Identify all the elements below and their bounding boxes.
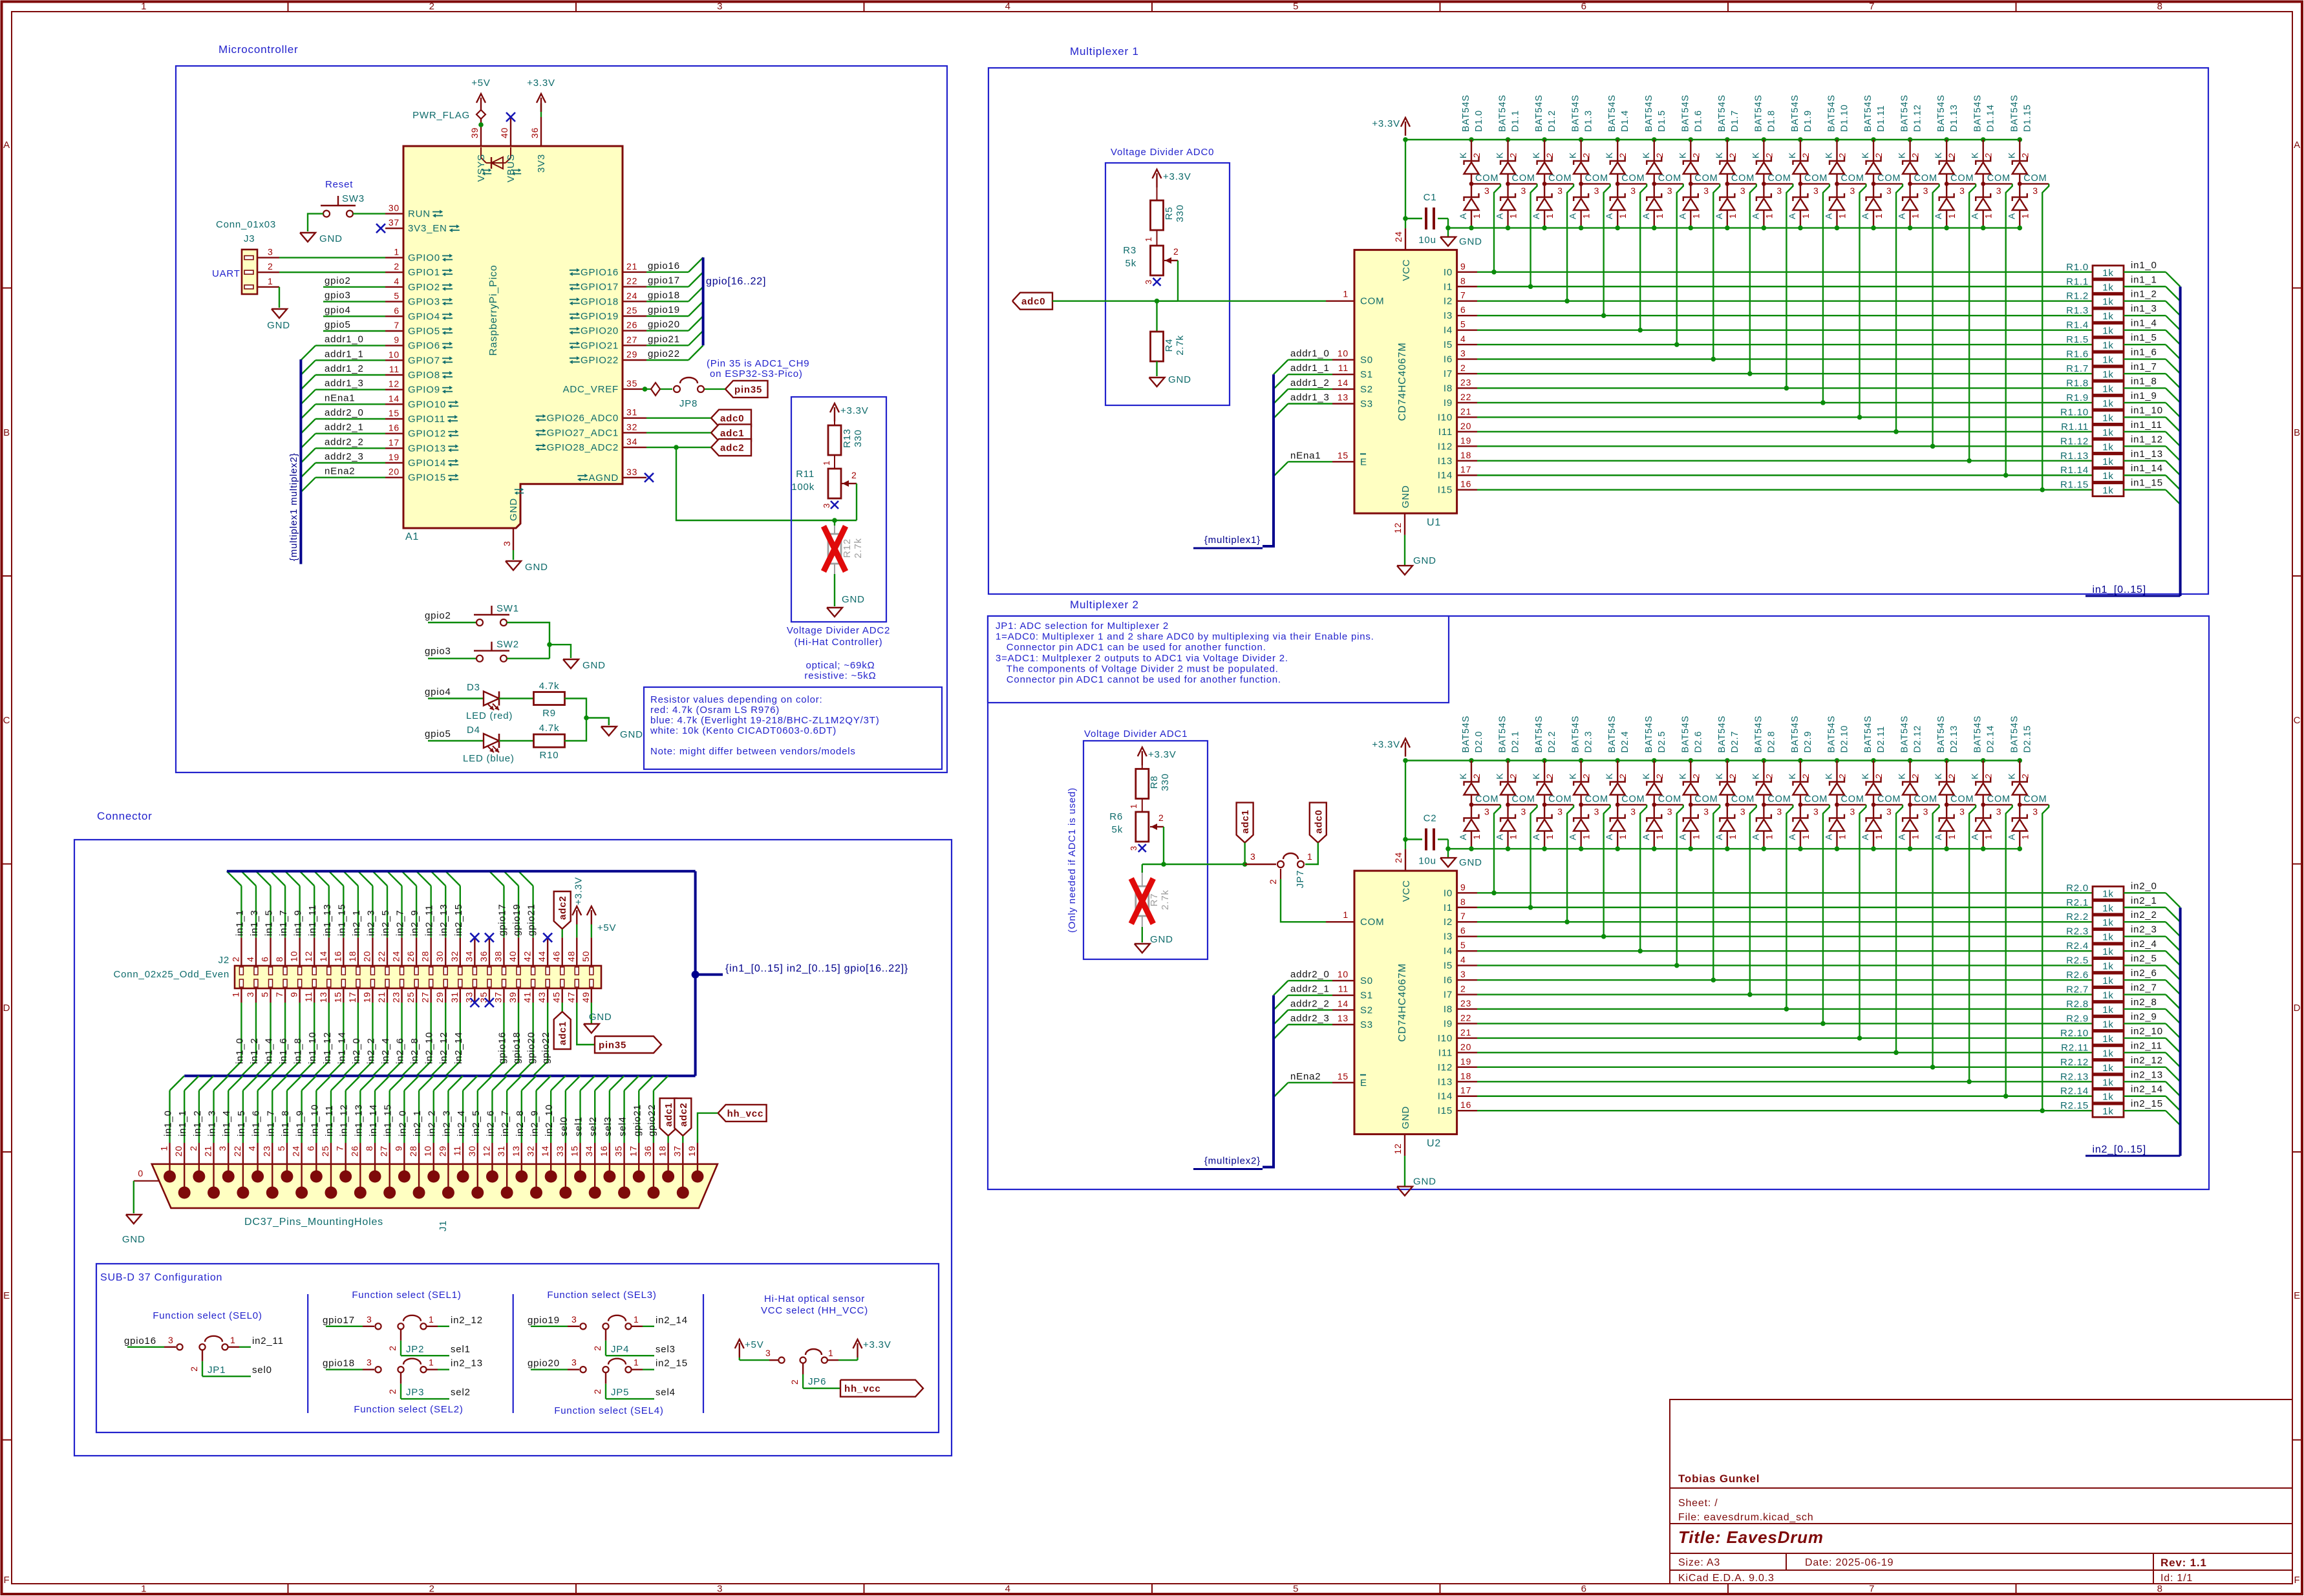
svg-text:C: C	[3, 715, 11, 726]
jumper JP7	[1245, 864, 1276, 865]
J1 pin 18	[662, 1171, 674, 1183]
svg-text:BAT54S: BAT54S	[1534, 716, 1544, 753]
svg-text:R1.8: R1.8	[2066, 378, 2089, 388]
junction I15 mux1	[2040, 487, 2045, 493]
svg-text:20: 20	[173, 1145, 184, 1156]
svg-text:Title: EavesDrum: Title: EavesDrum	[1678, 1527, 1824, 1547]
svg-text:addr2_3: addr2_3	[1290, 1013, 1330, 1024]
wire nEna2	[1288, 1082, 1333, 1083]
svg-text:8: 8	[1460, 275, 1466, 286]
svg-text:S1: S1	[1360, 990, 1373, 1001]
svg-text:in1_2: in1_2	[2131, 289, 2157, 300]
resistor R1.13 1k	[2093, 454, 2124, 467]
svg-text:pin35: pin35	[734, 384, 762, 395]
svg-text:CD74HC4067M: CD74HC4067M	[1397, 963, 1408, 1042]
svg-text:in2_3: in2_3	[441, 1110, 452, 1136]
svg-text:2: 2	[1460, 363, 1466, 373]
svg-text:D1.6: D1.6	[1693, 110, 1703, 132]
wire and label sel0 J1	[565, 1091, 566, 1143]
svg-text:15: 15	[1338, 1071, 1349, 1081]
svg-text:19: 19	[1460, 1056, 1471, 1067]
resistor R1.3 1k	[2093, 309, 2124, 322]
svg-text:addr2_1: addr2_1	[325, 422, 364, 433]
svg-text:1: 1	[1910, 834, 1921, 840]
svg-text:S1: S1	[1360, 369, 1373, 380]
svg-text:A: A	[1970, 213, 1980, 219]
junction I5 mux1	[1674, 342, 1680, 347]
bus entry in2_4	[2166, 951, 2181, 966]
svg-text:in1_15: in1_15	[2131, 478, 2163, 489]
wire and label in2_9 J2 top	[416, 886, 417, 937]
svg-text:gpio20: gpio20	[528, 1358, 560, 1369]
svg-text:R2.7: R2.7	[2066, 984, 2089, 995]
junction I4 mux2	[1637, 948, 1643, 953]
svg-text:38: 38	[493, 951, 503, 962]
svg-text:Date: 2025-06-19: Date: 2025-06-19	[1805, 1557, 1893, 1568]
U2 pin 4 I5	[1457, 964, 1477, 966]
svg-text:3: 3	[1630, 807, 1636, 817]
svg-text:R12: R12	[842, 538, 853, 558]
wire D2.11 COM to I11	[1896, 805, 1903, 1052]
svg-text:sel0: sel0	[252, 1365, 272, 1376]
svg-text:15: 15	[389, 408, 400, 418]
svg-text:JP8: JP8	[679, 398, 698, 409]
bus right vertical	[694, 871, 697, 1076]
svg-text:1: 1	[1691, 213, 1701, 219]
junction I11 mux2	[1893, 1050, 1899, 1056]
resistor R2.13 1k	[2093, 1075, 2124, 1088]
svg-text:BAT54S: BAT54S	[1827, 716, 1837, 753]
wire pico gnd	[513, 550, 514, 560]
wire and label sel1 J1	[579, 1091, 581, 1143]
svg-text:K: K	[1458, 152, 1468, 158]
svg-text:D1.8: D1.8	[1766, 110, 1776, 132]
wire gnd bottom rail mux2	[1448, 848, 2020, 849]
wire and label in2_5 J1	[477, 1091, 478, 1143]
wire and label in1_4 J1	[228, 1091, 229, 1143]
svg-text:A: A	[1568, 213, 1578, 219]
svg-text:COM: COM	[1694, 794, 1718, 805]
wire and label gpio17 J2 top	[503, 886, 504, 937]
svg-text:5: 5	[1460, 940, 1466, 950]
svg-text:in1_6: in1_6	[2131, 347, 2157, 358]
svg-text:D1.3: D1.3	[1584, 110, 1594, 132]
wire J2 gnd	[591, 1003, 592, 1024]
svg-text:36: 36	[529, 127, 540, 138]
svg-text:2: 2	[1581, 153, 1592, 158]
svg-text:D1.5: D1.5	[1657, 110, 1667, 132]
svg-text:in1_5: in1_5	[2131, 332, 2157, 343]
J2 pin 42	[532, 937, 533, 966]
svg-text:2: 2	[1471, 773, 1482, 779]
U1 pin 23 I8	[1457, 387, 1477, 388]
svg-text:COM: COM	[1767, 794, 1791, 805]
wire addr1_1	[1288, 374, 1333, 375]
svg-text:in2_12: in2_12	[451, 1315, 483, 1326]
no-connect J2 pin 33	[470, 998, 479, 1007]
svg-text:K: K	[1604, 152, 1614, 158]
wire D1.12 COM to I12	[1933, 184, 1939, 446]
wire J1 adc2	[682, 1136, 683, 1143]
pico internal VSYS-VBUS diode	[481, 147, 486, 163]
svg-text:R2.1: R2.1	[2066, 897, 2089, 908]
multiplexer IC U1 CD74HC4067M body	[1354, 250, 1457, 513]
wire D1.13 COM to I13	[1969, 184, 1976, 460]
pico pin 31 GPIO26_ADC0	[623, 418, 646, 419]
wire D1.5 COM to I5	[1677, 184, 1683, 345]
svg-text:1k: 1k	[2102, 888, 2113, 899]
U1 pin 4 I5	[1457, 344, 1477, 345]
svg-text:R1.0: R1.0	[2066, 262, 2089, 273]
label in2_1	[2124, 907, 2166, 908]
svg-text:K: K	[1970, 772, 1980, 779]
svg-text:GPIO21: GPIO21	[581, 340, 619, 351]
wire and label addr1_2	[315, 374, 385, 376]
svg-text:blue: 4.7k (Everlight 19-218/B: blue: 4.7k (Everlight 19-218/BHC-ZL1M2QY…	[650, 715, 880, 726]
svg-text:I5: I5	[1444, 339, 1453, 350]
svg-text:3: 3	[1667, 186, 1673, 196]
svg-text:Sheet: /: Sheet: /	[1678, 1498, 1718, 1509]
svg-text:gpio20: gpio20	[526, 1032, 537, 1064]
svg-text:AGND: AGND	[588, 473, 619, 484]
svg-text:15: 15	[570, 1145, 580, 1156]
power +3.3V mux2	[1405, 743, 1406, 757]
svg-text:1k: 1k	[2102, 369, 2113, 380]
svg-text:in2_13: in2_13	[2131, 1069, 2163, 1080]
power +3.3V divider ADC1	[1142, 751, 1143, 765]
wire SW1 out	[507, 622, 549, 659]
svg-text:K: K	[1750, 152, 1760, 158]
wire I10 row mux2	[1477, 1037, 2093, 1039]
svg-text:1: 1	[634, 1314, 639, 1325]
svg-text:sel3: sel3	[656, 1344, 676, 1355]
wire D2.6 COM to I6	[1713, 805, 1720, 980]
wire I14 row mux2	[1477, 1096, 2093, 1097]
svg-text:3: 3	[1557, 807, 1563, 817]
svg-text:GPIO11: GPIO11	[408, 414, 445, 425]
wire I11 row mux2	[1477, 1052, 2093, 1053]
wire D2.0 COM to I0	[1494, 805, 1500, 893]
wire I13 row mux1	[1477, 460, 2093, 462]
svg-text:8: 8	[2157, 1584, 2163, 1595]
svg-text:18: 18	[1460, 450, 1471, 460]
svg-text:22: 22	[1460, 392, 1471, 402]
J2 pin 21	[387, 988, 388, 1003]
svg-text:GPIO16: GPIO16	[581, 267, 619, 278]
svg-text:K: K	[1531, 152, 1541, 158]
svg-text:10: 10	[1338, 969, 1349, 979]
resistor R1.12 1k	[2093, 440, 2124, 452]
global label adc1 J1	[660, 1098, 677, 1136]
svg-text:3: 3	[1144, 279, 1153, 284]
svg-text:SW1: SW1	[496, 603, 519, 614]
svg-text:R1.2: R1.2	[2066, 291, 2089, 302]
svg-text:3: 3	[1740, 807, 1746, 817]
power +3.3V at 3V3 pin	[540, 103, 542, 117]
svg-text:1: 1	[1544, 213, 1555, 219]
svg-text:addr1_1: addr1_1	[325, 348, 364, 359]
svg-text:17: 17	[628, 1145, 638, 1156]
svg-text:10u: 10u	[1418, 856, 1436, 867]
ground below pico	[506, 561, 521, 570]
wire and label in1_1 J2 top	[240, 886, 242, 937]
svg-text:in1_10: in1_10	[2131, 405, 2163, 416]
svg-text:adc1: adc1	[663, 1103, 674, 1127]
svg-text:S0: S0	[1360, 355, 1373, 366]
wire addr1_3	[1288, 403, 1333, 404]
svg-text:3: 3	[1740, 186, 1746, 196]
svg-text:gpio3: gpio3	[325, 290, 351, 301]
svg-text:in2_5: in2_5	[2131, 953, 2157, 964]
svg-text:A: A	[1970, 833, 1980, 840]
svg-text:Hi-Hat optical sensor: Hi-Hat optical sensor	[764, 1293, 865, 1304]
svg-text:in2_7: in2_7	[395, 910, 406, 936]
U2 pin 24 VCC	[1405, 849, 1406, 871]
svg-text:I15: I15	[1438, 1105, 1453, 1116]
svg-text:2: 2	[1654, 153, 1665, 158]
svg-text:3: 3	[1923, 807, 1929, 817]
svg-text:RUN: RUN	[408, 209, 431, 220]
note box SUB-D 37 Configuration	[96, 1264, 939, 1432]
svg-text:24: 24	[391, 951, 401, 962]
wire and label in1_14 J1	[374, 1091, 376, 1143]
svg-text:in1_4: in1_4	[2131, 318, 2157, 329]
resistor R2.4 1k	[2093, 944, 2124, 957]
svg-text:in2_4: in2_4	[2131, 939, 2157, 950]
bus entry in2_2	[2166, 922, 2181, 937]
svg-text:11: 11	[1338, 984, 1349, 994]
svg-text:D2.10: D2.10	[1840, 725, 1850, 753]
svg-text:I10: I10	[1438, 1033, 1453, 1044]
svg-text:21: 21	[626, 261, 637, 271]
wire I15 row mux1	[1477, 489, 2093, 491]
U2 pin 20 I11	[1457, 1052, 1477, 1053]
section box Multiplexer 2	[988, 616, 2209, 1189]
svg-text:1: 1	[230, 1335, 236, 1345]
svg-text:I6: I6	[1444, 354, 1453, 365]
svg-text:3: 3	[1886, 186, 1892, 196]
svg-text:addr1_2: addr1_2	[325, 363, 364, 374]
bus entry in2_9	[2166, 1023, 2181, 1038]
J2 pin 38	[503, 937, 504, 966]
svg-text:4.7k: 4.7k	[539, 681, 560, 692]
svg-text:1k: 1k	[2102, 1048, 2113, 1059]
svg-text:9: 9	[289, 992, 299, 997]
wire D2.2 COM to I2	[1567, 805, 1573, 922]
junction I13 mux2	[1967, 1079, 1972, 1084]
svg-text:S2: S2	[1360, 1005, 1373, 1016]
J2 pin 17	[357, 988, 359, 1003]
bus entry in1_5	[2166, 345, 2181, 359]
svg-text:in2_14: in2_14	[656, 1315, 688, 1326]
svg-text:14: 14	[389, 393, 400, 403]
wire divider adc1 node	[1142, 864, 1245, 865]
label in1_7	[2124, 373, 2166, 374]
svg-text:C2: C2	[1424, 813, 1437, 824]
note box resistor values	[644, 687, 942, 769]
svg-text:D2.15: D2.15	[2022, 725, 2032, 753]
svg-text:1: 1	[429, 1314, 434, 1325]
svg-text:A: A	[1677, 833, 1687, 840]
bus entry in2_8	[2166, 1009, 2181, 1024]
svg-text:in2_11: in2_11	[2131, 1040, 2162, 1051]
svg-text:D2.2: D2.2	[1547, 731, 1557, 753]
svg-text:GND: GND	[1400, 485, 1411, 508]
svg-text:BAT54S: BAT54S	[1680, 716, 1691, 753]
label in1_13	[2124, 460, 2166, 462]
wire and label gpio22 J1	[653, 1091, 654, 1143]
ground at cap mux2	[1440, 858, 1456, 867]
svg-text:E: E	[3, 1290, 10, 1301]
svg-text:29: 29	[434, 992, 445, 1003]
wire D2.8 COM to I8	[1786, 805, 1793, 1009]
svg-text:A: A	[1458, 213, 1468, 219]
U1 pin 9 I0	[1457, 271, 1477, 273]
wire addr2_3	[1288, 1024, 1333, 1025]
svg-text:gpio20: gpio20	[648, 319, 680, 330]
svg-text:gpio4: gpio4	[425, 686, 451, 697]
svg-text:BAT54S: BAT54S	[1571, 94, 1581, 132]
svg-text:R7: R7	[1149, 893, 1160, 907]
svg-text:JP1: ADC selection for Multipl: JP1: ADC selection for Multiplexer 2	[996, 621, 1169, 632]
capacitor C2 10u	[1405, 838, 1422, 840]
wire J3 pin1 to gnd	[279, 287, 280, 308]
svg-text:in1_15: in1_15	[383, 1104, 394, 1136]
svg-text:COM: COM	[1360, 917, 1384, 928]
wire and label in2_11 J2 top	[430, 886, 431, 937]
svg-text:R2.4: R2.4	[2066, 941, 2089, 952]
U2 pin 5 I4	[1457, 950, 1477, 952]
wire D2.15 COM to I15	[2042, 805, 2049, 1111]
svg-text:on ESP32-S3-Pico): on ESP32-S3-Pico)	[710, 368, 803, 379]
svg-text:F: F	[4, 1575, 10, 1586]
wire and label in1_12 J1	[345, 1091, 346, 1143]
svg-text:D1.14: D1.14	[1986, 104, 1996, 132]
svg-text:D1.13: D1.13	[1949, 104, 1959, 132]
wire and label in1_10 J1	[315, 1091, 317, 1143]
svg-text:hh_vcc: hh_vcc	[844, 1383, 881, 1394]
wire and label in2_3 J1	[447, 1091, 449, 1143]
junction I9 mux2	[1820, 1021, 1826, 1027]
global label adc1	[711, 424, 751, 441]
wire and label gpio16	[646, 271, 688, 273]
bus entry in1_7	[2166, 374, 2181, 388]
svg-text:1k: 1k	[2102, 946, 2113, 957]
wire and label gpio3	[323, 301, 385, 302]
svg-text:3: 3	[245, 992, 255, 997]
pico pin 17 GPIO13	[385, 447, 403, 449]
label in1_14	[2124, 474, 2166, 476]
svg-text:A: A	[1531, 833, 1541, 840]
svg-text:1: 1	[159, 1145, 169, 1151]
ground below U1	[1397, 566, 1413, 575]
J2 pin 45	[562, 988, 563, 1003]
svg-text:D2.14: D2.14	[1986, 725, 1996, 753]
wire D2.5 COM to I5	[1677, 805, 1683, 966]
svg-text:in1_13: in1_13	[322, 904, 333, 936]
svg-text:2: 2	[189, 1366, 199, 1372]
svg-text:1: 1	[1343, 289, 1349, 299]
svg-text:COM: COM	[1548, 794, 1572, 805]
svg-text:3: 3	[1630, 186, 1636, 196]
svg-text:BAT54S: BAT54S	[1461, 716, 1471, 753]
svg-text:GPIO28_ADC2: GPIO28_ADC2	[547, 442, 619, 453]
J2 pin 8	[284, 937, 286, 966]
wire and label gpio21	[646, 345, 688, 346]
svg-text:K: K	[1787, 152, 1797, 158]
svg-text:GPIO10: GPIO10	[408, 399, 446, 410]
wire and label gpio22 J2 bottom	[547, 1003, 548, 1061]
svg-text:23: 23	[1460, 377, 1471, 387]
svg-text:E: E	[1360, 456, 1367, 467]
svg-text:addr2_3: addr2_3	[325, 451, 364, 462]
svg-text:in1_3: in1_3	[2131, 303, 2157, 314]
svg-text:3: 3	[1996, 186, 2002, 196]
svg-text:1: 1	[1581, 213, 1592, 219]
svg-text:2: 2	[1581, 773, 1592, 779]
svg-text:D1.4: D1.4	[1620, 110, 1630, 132]
svg-text:in1_2: in1_2	[249, 1037, 260, 1064]
svg-text:BAT54S: BAT54S	[1790, 716, 1800, 753]
svg-text:15: 15	[332, 992, 343, 1003]
wire adc0 to JP7	[1305, 843, 1318, 864]
wire J2 adc1	[562, 1003, 563, 1012]
svg-text:23: 23	[391, 992, 401, 1003]
potentiometer R11 100k	[828, 469, 841, 498]
svg-text:in2_10: in2_10	[424, 1032, 435, 1064]
wire I9 row mux2	[1477, 1023, 2093, 1024]
junction R11 wiper adc2	[832, 518, 837, 523]
svg-text:I6: I6	[1444, 975, 1453, 986]
junction I14 mux2	[2003, 1094, 2009, 1099]
wire and label in1_15 J2 top	[343, 886, 344, 937]
svg-text:11: 11	[452, 1145, 462, 1156]
junction I3 mux1	[1601, 313, 1606, 318]
bus entry in2_11	[2166, 1052, 2181, 1067]
svg-text:R11: R11	[796, 469, 815, 480]
svg-text:pin35: pin35	[599, 1040, 626, 1051]
pico pin 4 GPIO2	[385, 286, 403, 288]
svg-text:R1.4: R1.4	[2066, 320, 2089, 331]
resistor R2.2 1k	[2093, 915, 2124, 928]
svg-text:K: K	[1641, 772, 1651, 779]
svg-text:I7: I7	[1444, 368, 1453, 379]
wire J1 pin0 gnd	[133, 1181, 134, 1213]
svg-text:R1.3: R1.3	[2066, 305, 2089, 316]
bus multiplex1	[1263, 374, 1274, 546]
svg-text:1k: 1k	[2102, 1092, 2113, 1103]
svg-text:R2.10: R2.10	[2060, 1028, 2089, 1039]
svg-text:S0: S0	[1360, 975, 1373, 986]
junction R6 wiper	[1161, 862, 1166, 867]
global label pin35 J2	[595, 1036, 661, 1053]
U1 pin 24 VCC	[1405, 228, 1406, 250]
svg-text:1: 1	[1544, 834, 1555, 840]
J2 pin 20	[372, 937, 373, 966]
wire and label in2_8 J1	[521, 1091, 522, 1143]
wire to adc2	[646, 447, 711, 448]
svg-text:COM: COM	[2023, 173, 2047, 184]
svg-text:Rev: 1.1: Rev: 1.1	[2160, 1557, 2207, 1569]
J1 pin 36	[647, 1187, 659, 1199]
wire I9 row mux1	[1477, 402, 2093, 403]
svg-text:DC37_Pins_MountingHoles: DC37_Pins_MountingHoles	[244, 1217, 383, 1228]
wire I12 row mux1	[1477, 445, 2093, 447]
pico pin 20 GPIO15	[385, 477, 403, 478]
J2 pin 12	[314, 937, 315, 966]
wire D2.14 COM to I14	[2006, 805, 2012, 1096]
wire D2.12 COM to I12	[1933, 805, 1939, 1067]
